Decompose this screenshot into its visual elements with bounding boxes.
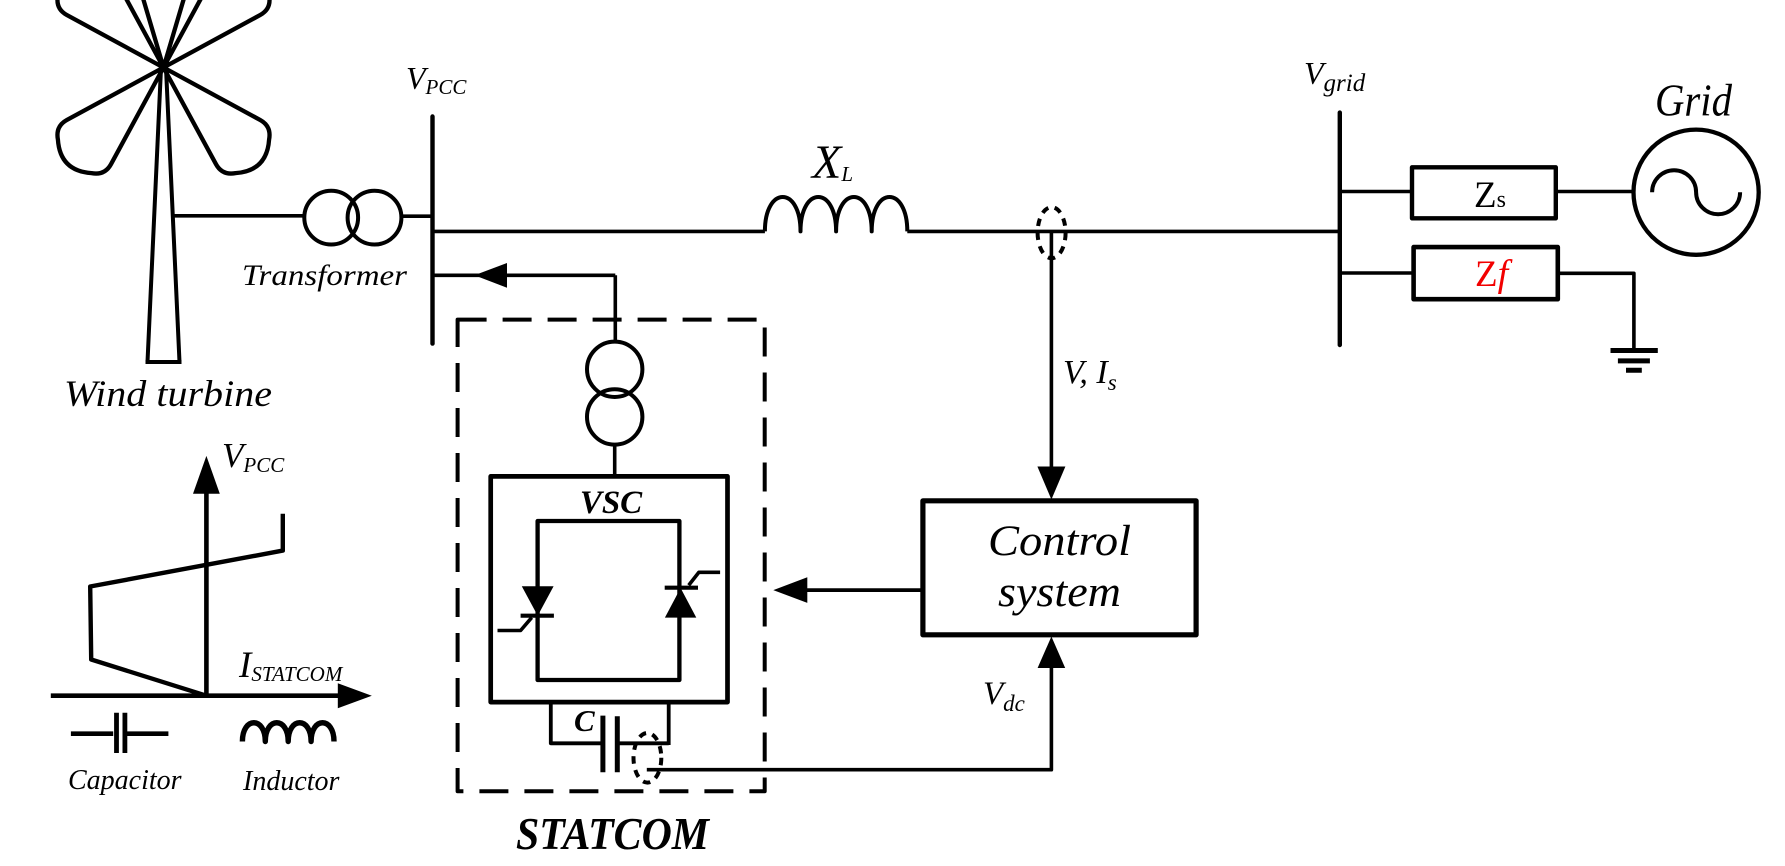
svg-text:ISTATCOM: ISTATCOM: [238, 645, 344, 686]
svg-text:VSC: VSC: [580, 485, 643, 521]
wire PCC bus to inductor: [433, 230, 765, 234]
arrowhead Vdc into control system: [1038, 637, 1066, 669]
graph x-axis arrowhead: [338, 683, 372, 708]
svg-text:Zf: Zf: [1475, 253, 1513, 295]
resistor Zs box: [1412, 167, 1556, 218]
wire grid bus to Zs: [1340, 190, 1412, 194]
inductor legend symbol: [242, 723, 334, 742]
wire grid bus to Zf: [1340, 271, 1414, 275]
svg-text:V, Is: V, Is: [1063, 354, 1117, 395]
inductor X_L: [765, 197, 907, 231]
VSC right dc stub: [617, 702, 668, 745]
transformer T1 circle left: [304, 191, 358, 245]
wind turbine rotor blade upper-right: [164, 0, 270, 68]
bus V_grid: [1338, 113, 1342, 345]
wire Vdc to control system: [647, 668, 1052, 770]
grid source sine wave: [1652, 170, 1740, 214]
svg-text:Vgrid: Vgrid: [1304, 55, 1366, 97]
wire control system to STATCOM: [807, 588, 923, 592]
svg-text:STATCOM: STATCOM: [516, 808, 711, 859]
STATCOM transformer circle bottom: [587, 389, 642, 444]
capacitor C plate right: [615, 716, 620, 772]
svg-text:Vdc: Vdc: [983, 676, 1025, 716]
arrowhead into STATCOM: [773, 577, 807, 603]
graph y-axis: [204, 490, 209, 696]
svg-text:VPCC: VPCC: [406, 60, 467, 99]
svg-text:VPCC: VPCC: [222, 436, 285, 477]
wind turbine rotor blade upper-left: [57, 0, 163, 67]
svg-text:Grid: Grid: [1655, 76, 1732, 126]
STATCOM dashed box: [458, 320, 765, 792]
capacitor legend symbol: [71, 731, 168, 736]
svg-text:Control: Control: [988, 518, 1131, 565]
control system box: [923, 501, 1196, 635]
svg-text:Transformer: Transformer: [242, 259, 407, 292]
VSC inner bridge rectangle: [538, 521, 680, 680]
dashed measuring ellipse on line: [1038, 207, 1066, 258]
svg-text:Capacitor: Capacitor: [68, 765, 182, 796]
wire Zf to ground: [1558, 273, 1634, 348]
svg-text:Inductor: Inductor: [242, 766, 340, 797]
svg-text:Zs: Zs: [1474, 175, 1506, 216]
STATCOM transformer circle top: [587, 342, 642, 397]
wind turbine rotor blade lower-left: [57, 68, 163, 174]
thyristor Q2 triangle: [665, 588, 696, 618]
thyristor Q2 gate: [689, 572, 720, 585]
arrowhead V,Is into control system: [1037, 467, 1065, 500]
resistor Zf box: [1414, 247, 1558, 299]
wire junction down to STATCOM transformer: [613, 275, 617, 342]
arrowhead into PCC bus: [474, 263, 507, 288]
wire V,Is measurement to control system: [1050, 233, 1054, 467]
svg-text:XL: XL: [810, 136, 853, 189]
svg-text:C: C: [574, 703, 595, 738]
capacitor legend plates: [117, 713, 125, 753]
thyristor Q1 cathode bar: [521, 614, 554, 618]
wire turbine to transformer: [172, 214, 305, 218]
transformer T1 circle right: [348, 191, 402, 245]
wire Zs to grid source: [1556, 190, 1634, 194]
wind turbine tower: [146, 68, 182, 362]
capacitor C plate left: [600, 716, 605, 773]
ground symbol: [1611, 351, 1658, 371]
grid source circle: [1634, 130, 1759, 255]
wire transformer to PCC bus: [401, 214, 432, 218]
bus V_PCC: [430, 117, 434, 344]
thyristor Q1 gate: [498, 618, 532, 631]
wind turbine rotor blade lower-right: [164, 68, 270, 174]
dashed measuring ellipse at capacitor: [634, 733, 662, 783]
graph x-axis: [51, 693, 340, 698]
svg-text:Wind turbine: Wind turbine: [64, 374, 272, 415]
V-I characteristic curve: [90, 514, 283, 696]
wind turbine rotor blade up: [131, 0, 195, 68]
wire PCC bus to STATCOM junction: [433, 273, 616, 277]
thyristor Q2 cathode bar: [665, 586, 698, 590]
VSC box: [491, 476, 728, 702]
thyristor Q1 triangle: [522, 586, 554, 616]
svg-text:system: system: [998, 569, 1121, 616]
wire STATCOM transformer to VSC: [613, 445, 617, 477]
wire inductor to grid bus: [907, 230, 1340, 234]
graph y-axis arrowhead: [193, 456, 220, 494]
VSC left dc stub: [551, 702, 603, 743]
